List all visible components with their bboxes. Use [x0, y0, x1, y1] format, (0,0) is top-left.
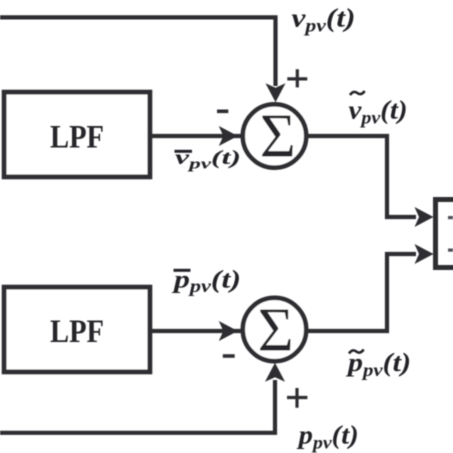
svg-text:ppv(t): ppv(t)	[297, 420, 359, 452]
svg-text:Σ: Σ	[258, 296, 294, 364]
svg-text:ppv(t): ppv(t)	[346, 348, 411, 380]
svg-text:LPF: LPF	[50, 314, 104, 350]
svg-text:vpv(t): vpv(t)	[292, 4, 356, 36]
svg-text:Σ: Σ	[260, 102, 296, 170]
svg-text:LPF: LPF	[50, 120, 104, 156]
svg-text:vpv(t): vpv(t)	[349, 96, 408, 128]
